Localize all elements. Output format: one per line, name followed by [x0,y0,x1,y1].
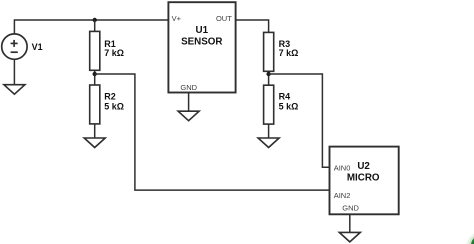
node junction top rail [93,18,97,22]
svg-text:SENSOR: SENSOR [181,36,222,47]
wire [268,71,270,85]
wire [94,20,96,31]
resistor R3 [264,32,274,71]
svg-text:5 kΩ: 5 kΩ [104,102,124,112]
micro U2 box [330,147,399,215]
svg-text:R2: R2 [104,92,116,102]
ground [339,232,360,242]
wire [94,70,96,85]
svg-text:AIN2: AIN2 [334,191,351,200]
wire [13,59,15,84]
green corner artifact [467,234,474,244]
node junction R1-R2 [93,72,97,76]
svg-text:GND: GND [342,204,359,213]
node junction R3-R4 [266,72,270,76]
ground [4,85,25,95]
voltage source V1 [2,34,27,59]
svg-text:U1: U1 [196,25,209,36]
svg-text:V+: V+ [172,14,182,23]
ground [84,138,105,148]
svg-text:5 kΩ: 5 kΩ [279,102,299,112]
wire [188,93,190,112]
sensor U1 box [168,2,235,92]
svg-text:U2: U2 [357,161,370,172]
wire [14,20,168,34]
wire [349,214,351,232]
svg-text:AIN0: AIN0 [334,164,351,173]
resistor R1 [90,31,100,70]
resistor R2 [90,85,100,124]
svg-text:OUT: OUT [216,14,232,23]
wire [236,20,269,32]
wire [95,74,330,190]
svg-text:V1: V1 [32,42,43,52]
svg-text:GND: GND [180,83,197,92]
wire [269,74,330,167]
ground [258,138,279,148]
svg-text:MICRO: MICRO [347,173,380,184]
wire [94,124,96,138]
resistor R4 [264,85,274,124]
wire [268,124,270,138]
svg-text:7 kΩ: 7 kΩ [279,48,299,58]
ground [178,111,199,121]
svg-text:R4: R4 [279,92,291,102]
svg-text:7 kΩ: 7 kΩ [104,48,124,58]
